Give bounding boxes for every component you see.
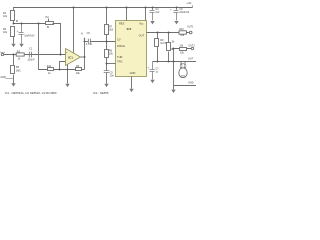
svg-text:GND: GND bbox=[130, 71, 136, 75]
svg-text:DISCH: DISCH bbox=[117, 44, 125, 48]
wire P2 to plus input bbox=[53, 24, 61, 55]
wire C2 to IC pin CV bbox=[90, 41, 115, 43]
resistor R11 bbox=[48, 68, 54, 71]
ground below IC bbox=[129, 89, 133, 92]
svg-text:2n2: 2n2 bbox=[155, 11, 160, 14]
wire VCC stub bbox=[145, 8, 147, 21]
ground below C4 bbox=[150, 21, 154, 24]
wire R8 to TRG node bbox=[106, 58, 108, 71]
svg-text:IC2: IC2 bbox=[127, 27, 132, 31]
svg-text:OUT2: OUT2 bbox=[188, 45, 195, 48]
resistor R2 bbox=[16, 53, 24, 56]
svg-text:R11: R11 bbox=[47, 65, 52, 68]
trimmer P3 bbox=[167, 43, 171, 51]
svg-text:1M5: 1M5 bbox=[16, 69, 21, 72]
svg-text:OUT1: OUT1 bbox=[187, 26, 194, 29]
svg-text:220uF/10: 220uF/10 bbox=[179, 12, 189, 14]
wire TRG stub bbox=[107, 63, 116, 65]
resistor R1 bbox=[11, 11, 15, 21]
resistor R4 bbox=[11, 27, 15, 37]
ground below C7 bbox=[150, 80, 154, 83]
svg-text:+: + bbox=[66, 51, 68, 55]
trimmer P3 branch bbox=[168, 33, 170, 43]
wire R6 to output bbox=[82, 69, 85, 71]
wire R5 branch bbox=[13, 55, 15, 66]
resistor R6 bbox=[76, 68, 82, 71]
wire input line bbox=[4, 54, 66, 56]
svg-text:P2: P2 bbox=[46, 15, 50, 19]
wire GND bus bbox=[174, 85, 197, 87]
wire node B to feedback bbox=[39, 24, 48, 70]
resistor R13 bbox=[180, 48, 187, 51]
wire RES stub bbox=[126, 8, 128, 21]
wire R9 branch bbox=[157, 33, 159, 39]
ground below C8 bbox=[174, 21, 178, 24]
junction dots bbox=[13, 7, 178, 71]
wire 555 divider from rail bbox=[106, 8, 108, 25]
wire buzzer bus bbox=[153, 61, 197, 63]
wire OUT2 row bbox=[174, 48, 192, 50]
wire op-amp V+ bbox=[73, 8, 75, 53]
wire R7 to R8 bbox=[106, 35, 108, 50]
svg-text:100nF: 100nF bbox=[27, 58, 35, 61]
svg-text:B: B bbox=[16, 19, 18, 23]
wire inverting input stub bbox=[60, 62, 66, 70]
wire top supply rail bbox=[14, 8, 193, 24]
op-amp IC1 bbox=[66, 49, 81, 66]
resistor R5 bbox=[11, 66, 15, 74]
ground below C5 bbox=[104, 84, 108, 87]
trimmer P2 bbox=[46, 22, 54, 25]
wiper P3 bbox=[172, 48, 174, 50]
node OUT2 terminal bbox=[191, 47, 193, 49]
IC2 555 box bbox=[116, 21, 147, 77]
wire 555 OUT bbox=[147, 32, 190, 34]
svg-text:R10: R10 bbox=[179, 28, 184, 31]
resistor R8 bbox=[105, 50, 109, 58]
wire R4 to ground bbox=[13, 37, 15, 44]
svg-text:RES: RES bbox=[119, 21, 125, 25]
svg-text:Input: Input bbox=[0, 51, 5, 54]
capacitor C7 electrolytic bbox=[150, 62, 155, 80]
svg-text:GND: GND bbox=[188, 81, 194, 84]
svg-text:10n: 10n bbox=[110, 75, 115, 78]
ground bottom right bbox=[173, 86, 175, 90]
node +Ub terminal bbox=[192, 5, 194, 7]
labels bbox=[0, 1, 195, 95]
wire node B horizontal bbox=[14, 23, 46, 25]
ground below op-amp bbox=[65, 84, 69, 87]
svg-text:3k3: 3k3 bbox=[109, 29, 114, 32]
capacitor C5 bbox=[104, 71, 110, 73]
capacitor C3 electrolytic bbox=[19, 24, 24, 44]
node A arrow bbox=[84, 39, 86, 70]
wire op-amp output bbox=[81, 56, 85, 58]
svg-text:+Ub: +Ub bbox=[186, 1, 192, 5]
svg-text:OUT: OUT bbox=[188, 58, 194, 61]
svg-text:THR: THR bbox=[117, 55, 122, 59]
buzzer HP bbox=[179, 68, 187, 78]
svg-text:Vcc: Vcc bbox=[139, 21, 144, 25]
node input terminal bbox=[1, 53, 3, 55]
svg-text:TRG: TRG bbox=[117, 60, 122, 64]
node OUT1 terminal bbox=[189, 31, 192, 34]
svg-text:4,7uF: 4,7uF bbox=[86, 43, 93, 46]
svg-text:IC1: IC1 bbox=[68, 55, 73, 59]
capacitor C1 bbox=[29, 52, 31, 58]
capacitor C8 electrolytic bbox=[174, 8, 179, 21]
wire OUT2 down bbox=[173, 49, 175, 86]
svg-text:GND: GND bbox=[0, 76, 6, 79]
wire R11 to minus node bbox=[54, 69, 76, 71]
svg-text:HP: HP bbox=[181, 64, 185, 66]
resistor R7 bbox=[105, 25, 109, 35]
ground below R5 bbox=[11, 83, 15, 86]
svg-text:10uF/16V: 10uF/16V bbox=[24, 35, 35, 38]
wire node A to C2 bbox=[85, 41, 89, 43]
svg-text:OUT: OUT bbox=[139, 34, 145, 38]
capacitor C4 bbox=[150, 8, 155, 21]
svg-text:CV: CV bbox=[117, 37, 121, 41]
ground below C3 bbox=[19, 44, 23, 47]
wire op-amp V- to ground bbox=[67, 64, 69, 84]
resistor R9 bbox=[155, 39, 159, 47]
wire GND tap bbox=[6, 78, 14, 80]
svg-text:A: A bbox=[81, 31, 83, 35]
svg-text:IC2 - NE555: IC2 - NE555 bbox=[93, 91, 109, 95]
resistor R10 bbox=[179, 31, 186, 34]
ground below R4 bbox=[11, 44, 15, 47]
svg-text:+: + bbox=[17, 29, 19, 33]
wire IC GND stub bbox=[131, 77, 133, 89]
svg-text:IC1 - NE5534A, 1/2 NE5532, 1/2: IC1 - NE5534A, 1/2 NE5532, 1/2 RC4580 bbox=[5, 91, 57, 95]
capacitor C2 bbox=[88, 39, 90, 44]
svg-text:45R: 45R bbox=[181, 75, 185, 77]
